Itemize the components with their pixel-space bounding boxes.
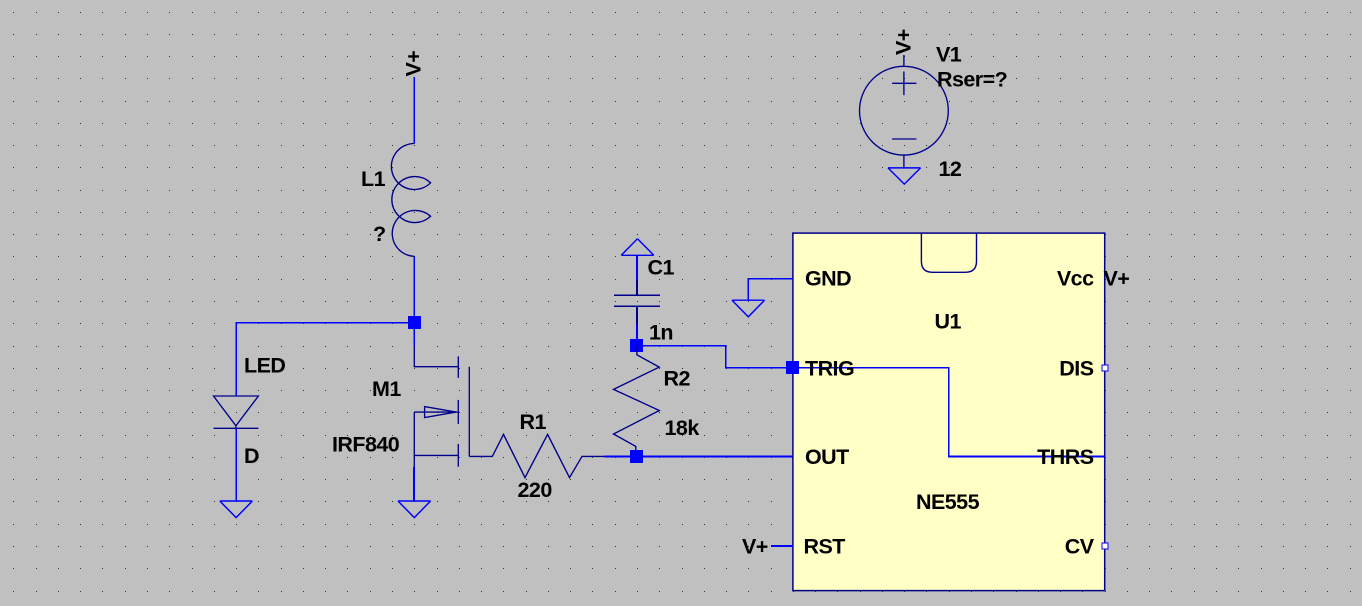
node junction (R1/R2/OUT) xyxy=(630,450,643,463)
wire C1 to trig node xyxy=(636,323,638,345)
svg-text:TRIG: TRIG xyxy=(805,356,854,380)
svg-text:?: ? xyxy=(373,222,386,246)
resistor R1 xyxy=(469,434,604,477)
capacitor C1 xyxy=(614,279,660,323)
ground (M1 source) xyxy=(398,501,431,518)
internal wire TRIG to THRS xyxy=(793,368,1105,457)
node junction (drain) xyxy=(408,316,421,329)
svg-text:R2: R2 xyxy=(664,367,691,391)
svg-text:LED: LED xyxy=(244,354,285,378)
svg-text:D: D xyxy=(244,444,259,468)
svg-text:THRS: THRS xyxy=(1037,445,1094,469)
node square TRIG pin xyxy=(786,361,799,374)
svg-text:12: 12 xyxy=(939,157,962,181)
IC U1 NE555 body xyxy=(793,233,1105,590)
LED D xyxy=(214,396,259,428)
wire RST pin to V+ flag xyxy=(771,545,793,547)
pin square CV xyxy=(1102,543,1108,549)
svg-text:V1: V1 xyxy=(936,43,962,67)
svg-text:R1: R1 xyxy=(520,410,547,434)
transistor M1 (IRF840, mirrored nmos) xyxy=(414,346,469,467)
pin square DIS xyxy=(1102,365,1108,371)
wire trig node to TRIG pin xyxy=(637,346,793,368)
wire out node to OUT pin xyxy=(637,455,793,457)
svg-text:GND: GND xyxy=(805,267,851,291)
resistor R2 xyxy=(614,346,660,456)
svg-text:U1: U1 xyxy=(935,310,962,334)
svg-text:220: 220 xyxy=(518,478,553,502)
wire node to LED branch xyxy=(236,323,414,396)
svg-text:18k: 18k xyxy=(665,416,700,440)
svg-text:V+: V+ xyxy=(1104,267,1130,291)
svg-text:C1: C1 xyxy=(648,256,675,280)
wire M1 source to ground xyxy=(413,467,415,501)
ground flag above C1 (flipped) xyxy=(621,239,654,256)
wire V+ flag to L1 top xyxy=(413,77,415,144)
svg-text:Vcc: Vcc xyxy=(1057,267,1094,291)
wire LED to ground xyxy=(235,428,237,501)
wire GND pin to ground xyxy=(748,279,793,301)
svg-text:CV: CV xyxy=(1065,535,1095,559)
svg-text:IRF840: IRF840 xyxy=(332,433,400,457)
svg-text:L1: L1 xyxy=(361,167,386,191)
wire L1 bottom to drain node xyxy=(413,256,415,322)
svg-text:Rser=?: Rser=? xyxy=(937,68,1007,92)
svg-text:V+: V+ xyxy=(402,51,426,77)
ground (LED) xyxy=(220,501,253,518)
svg-text:NE555: NE555 xyxy=(916,490,980,514)
svg-text:RST: RST xyxy=(804,535,846,559)
svg-text:OUT: OUT xyxy=(805,445,849,469)
wire gnd flag to C1 xyxy=(636,255,638,279)
IC notch xyxy=(921,233,976,272)
inductor L1 xyxy=(391,144,430,257)
wire R1 to out node xyxy=(605,455,637,457)
node junction (C1/R2) xyxy=(630,339,643,352)
svg-text:V+: V+ xyxy=(742,535,768,559)
voltage source V1 xyxy=(860,55,949,167)
wire node to M1 drain xyxy=(413,323,415,346)
svg-text:V+: V+ xyxy=(892,29,916,55)
svg-text:DIS: DIS xyxy=(1059,356,1093,380)
svg-text:M1: M1 xyxy=(372,377,401,401)
svg-text:1n: 1n xyxy=(649,321,673,345)
ground (V1) xyxy=(888,168,921,184)
ground (IC GND) xyxy=(732,300,765,317)
